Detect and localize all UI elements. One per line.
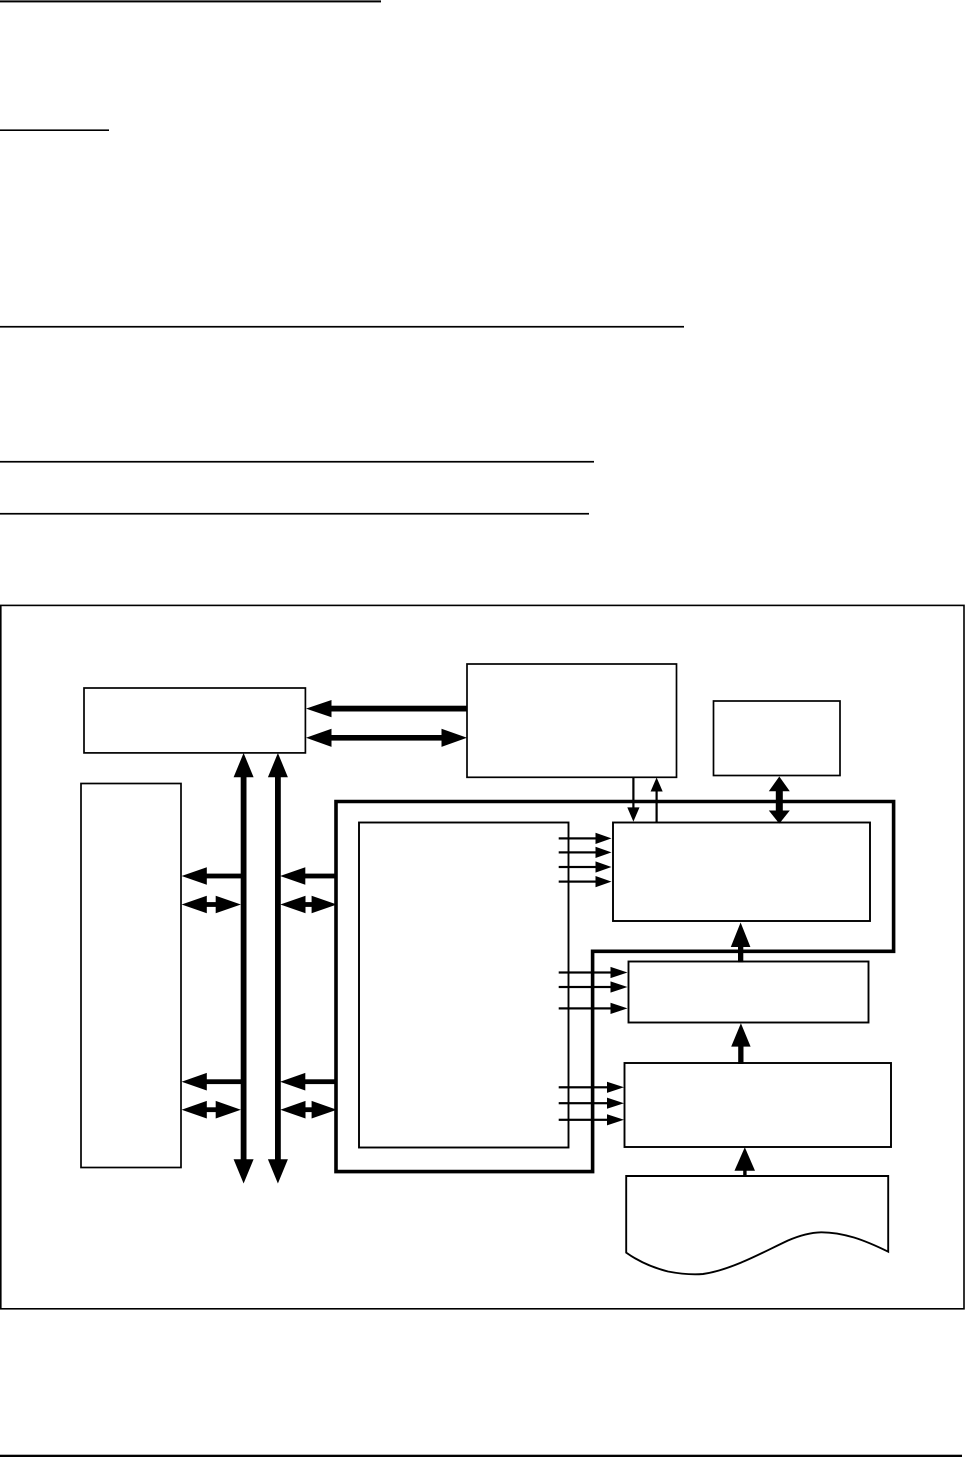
wire arrow E to bus2 upper (304, 874, 338, 879)
wire up arrow G to F (738, 946, 743, 963)
box H mechanism block (625, 1063, 892, 1147)
paragraph underline 3 (0, 513, 589, 515)
section heading underline (0, 129, 109, 131)
wire thin down arrow B to F (632, 778, 634, 809)
paragraph underline 2 (0, 461, 594, 463)
wire thin up arrow F to B (656, 791, 658, 823)
box G driver block (629, 962, 869, 1023)
box D left tall memory block (81, 784, 181, 1168)
signal arrows J to F (4 lines) (559, 837, 597, 839)
box C top-right small block (714, 701, 841, 776)
wire arrow bus1 to D lower (205, 1079, 243, 1084)
wire arrow D-bus1 bidirectional upper (205, 902, 218, 907)
wire up arrow H to G (738, 1046, 743, 1065)
wire up arrow I to H (743, 1170, 746, 1177)
wire arrow D-bus1 bidirectional lower (205, 1107, 218, 1112)
box E thick-border LSI outline (L-shape) (336, 802, 894, 1172)
box A top-left controller (84, 688, 305, 753)
bus 1 vertical double arrow (241, 776, 247, 1161)
diagram outer frame (1, 605, 964, 1308)
box F right upper block inside LSI (613, 823, 870, 922)
header title underline (0, 0, 381, 2)
box I document/paper shape with wavy bottom (626, 1176, 888, 1274)
wire arrow B to A (left pointing) (329, 706, 467, 712)
wire arrow E to bus2 lower (304, 1079, 338, 1084)
signal arrows to H (3 lines) (559, 1086, 609, 1088)
wire arrow bus2-E bidirectional lower (304, 1107, 314, 1112)
paragraph underline 1 (0, 326, 684, 328)
signal arrows to G (3 lines) (559, 971, 612, 973)
footer rule (0, 1455, 962, 1457)
wire arrow bus1 to D upper (205, 874, 243, 879)
wire arrow A-B bidirectional (329, 735, 444, 741)
wire arrow bus2-E bidirectional upper (304, 902, 314, 907)
wire thick double arrow C to F (776, 790, 783, 811)
box J inner core block (359, 823, 569, 1148)
bus 2 vertical double arrow (275, 776, 281, 1161)
box B top-center host interface (467, 664, 677, 777)
